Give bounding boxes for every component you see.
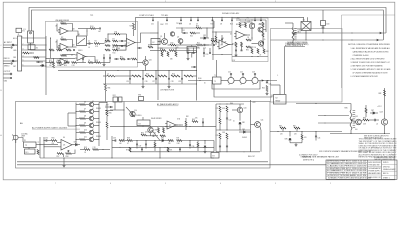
resistor R92 — [185, 121, 187, 127]
capacitor C43 — [141, 148, 143, 150]
svg-text:+24V: +24V — [252, 102, 255, 104]
resistor R2 — [61, 39, 67, 41]
left column parts — [262, 22, 264, 27]
wire mid links — [265, 20, 267, 32]
resistor R60 — [93, 149, 99, 151]
svg-text:470: 470 — [304, 137, 307, 139]
diode CR6 — [289, 138, 291, 140]
svg-text:R92: R92 — [186, 116, 189, 118]
svg-text:REF: REF — [13, 57, 16, 59]
svg-text:R65: R65 — [109, 113, 112, 115]
wire diagonal — [126, 107, 135, 117]
wire U6 in — [57, 142, 59, 144]
connector J1 — [18, 36, 22, 71]
svg-text:C52: C52 — [165, 24, 168, 26]
svg-text:3. REFER TO ASSY DWG FOR: 3. REFER TO ASSY DWG FOR COMPONENT LOC — [351, 61, 391, 64]
svg-text:J1: J1 — [18, 34, 20, 36]
ground G6 — [204, 150, 206, 151]
transistor Q7 — [89, 109, 93, 113]
transistor Q3 — [249, 23, 254, 28]
transistor Q14 — [130, 111, 135, 116]
svg-text:R35: R35 — [246, 49, 249, 51]
wire osc y28 — [176, 27, 196, 29]
wire top rail A2r — [216, 103, 244, 105]
resistor R91 — [163, 128, 165, 134]
resistor R62 — [80, 111, 86, 113]
wire osc top — [150, 32, 158, 34]
svg-text:CAUTION: SEE SEPARATE PARTS: CAUTION: SEE SEPARATE PARTS LIST — [302, 156, 340, 159]
wire R1 feedback — [57, 24, 60, 32]
svg-text:1K: 1K — [247, 37, 249, 39]
capacitor C35 — [45, 139, 47, 141]
diode CR7 — [373, 112, 375, 114]
svg-text:4.7K: 4.7K — [95, 46, 98, 48]
resistor RL3 — [158, 75, 167, 77]
op-amp U7 — [167, 121, 176, 129]
capacitor C44 — [179, 148, 181, 150]
resistor R52 — [132, 58, 137, 60]
wire amp net — [86, 29, 88, 37]
svg-text:R30: R30 — [236, 24, 239, 26]
resistor R61 — [80, 104, 86, 106]
svg-text:5: 5 — [165, 183, 166, 185]
svg-text:+15V: +15V — [236, 18, 240, 20]
svg-text:UP UNLESS OTHERWISE INDICAT: UP UNLESS OTHERWISE INDICATED BY NOTE — [353, 72, 389, 75]
svg-text:Q12: Q12 — [355, 116, 358, 118]
svg-text:C51: C51 — [151, 24, 154, 26]
wire A2 bottom rail — [40, 157, 214, 159]
svg-text:RET: RET — [13, 66, 16, 68]
ground G1 — [103, 63, 105, 64]
svg-text:R17: R17 — [96, 60, 99, 62]
capacitor C39 — [189, 144, 191, 146]
svg-text:220: 220 — [57, 65, 60, 67]
capacitor C41 — [219, 145, 221, 147]
wire row1b — [93, 62, 95, 64]
wire U2 inputs — [119, 40, 127, 42]
assembly box A1 — [46, 21, 138, 67]
resistor R67 — [119, 140, 125, 142]
svg-text:R98: R98 — [148, 45, 151, 47]
svg-text:C27: C27 — [152, 81, 155, 83]
svg-text:RELAY DRIVER: RELAY DRIVER — [151, 117, 161, 120]
wire K1 to y40 — [305, 33, 307, 40]
wire filter input — [188, 80, 213, 82]
resistor R71 — [177, 140, 183, 142]
wire ladder top — [58, 70, 197, 72]
svg-text:22K: 22K — [104, 42, 107, 44]
resistor R37 — [257, 49, 259, 54]
resistor R1 — [61, 23, 67, 25]
resistor R68 — [127, 140, 133, 142]
resistor R45 — [266, 86, 268, 92]
resistor R90 — [158, 128, 160, 134]
svg-text:.02: .02 — [376, 123, 378, 125]
capacitor C24 — [266, 81, 268, 83]
wire bottom net — [232, 56, 268, 58]
resistor R4 — [94, 43, 100, 45]
capacitor C42 — [226, 145, 228, 147]
wire U1B out — [73, 46, 77, 48]
wire Q10 leads — [94, 132, 99, 134]
svg-text:3.9K: 3.9K — [222, 108, 225, 110]
wire Q7 leads — [94, 111, 99, 113]
svg-text:C28: C28 — [171, 81, 174, 83]
svg-text:150: 150 — [254, 47, 257, 49]
svg-text:-15V: -15V — [232, 60, 235, 62]
diode CR2 — [162, 139, 164, 141]
svg-text:220: 220 — [52, 143, 55, 145]
svg-text:C45: C45 — [318, 137, 321, 139]
resistor R35 — [246, 46, 251, 48]
capacitor R28 — [260, 17, 262, 20]
resistor R9 — [105, 49, 110, 51]
wire R85 ends — [350, 104, 352, 111]
svg-text:470: 470 — [176, 47, 179, 49]
vertical rails A2 — [111, 136, 113, 158]
resistor RL1 — [132, 75, 141, 77]
svg-text:TP4: TP4 — [203, 39, 206, 41]
svg-text:47: 47 — [260, 54, 262, 56]
svg-text:C6: C6 — [189, 24, 191, 26]
rheostat R40 — [292, 28, 294, 41]
wire R40 bottom — [292, 41, 294, 45]
svg-text:0.1: 0.1 — [92, 101, 94, 103]
svg-text:R74: R74 — [170, 149, 173, 151]
resistor R12 — [49, 62, 54, 64]
capacitor C50 — [138, 47, 140, 49]
capacitor C34 — [193, 66, 195, 68]
wire stack out — [106, 103, 108, 111]
svg-text:R56: R56 — [52, 138, 55, 140]
resistor R96 — [105, 84, 107, 91]
transistor Q16 — [143, 60, 148, 65]
resistor R5 — [105, 40, 110, 42]
filter L2 — [240, 77, 246, 83]
wire J1 pin 4 — [22, 56, 46, 58]
svg-text:0.1: 0.1 — [92, 115, 94, 117]
svg-text:R101: R101 — [90, 26, 94, 28]
line filter FL2 — [25, 149, 36, 154]
svg-text:R22: R22 — [162, 49, 165, 51]
resistor R87 — [365, 108, 367, 113]
wire row y141 — [125, 140, 128, 142]
svg-text:C10: C10 — [203, 47, 206, 49]
wire loop y97 — [214, 84, 272, 97]
capacitor C28 — [168, 77, 170, 79]
wire J1 pin 5 — [22, 60, 46, 62]
resistor R51 — [120, 58, 125, 60]
resistor RL4 — [171, 75, 180, 77]
svg-text:U8: U8 — [118, 48, 120, 50]
resistor R69 — [154, 143, 156, 148]
svg-text:R11: R11 — [115, 31, 118, 33]
svg-text:T1: T1 — [214, 75, 216, 77]
svg-text:VR1: VR1 — [242, 122, 245, 124]
svg-text:R71: R71 — [177, 138, 180, 140]
capacitor C38 — [145, 143, 147, 145]
svg-text:Q10: Q10 — [244, 108, 247, 110]
capacitor C27 — [155, 77, 157, 79]
resistor R66 — [106, 122, 108, 128]
resistor R16 — [88, 62, 93, 64]
zone boundary vertical — [341, 15, 343, 88]
capacitor C29 — [181, 77, 183, 79]
svg-text:R94: R94 — [141, 132, 144, 134]
svg-text:Q10: Q10 — [84, 130, 87, 132]
svg-text:CR6: CR6 — [285, 139, 288, 141]
svg-text:FL1: FL1 — [26, 152, 29, 154]
resistor R29 — [133, 23, 135, 30]
wire v15 stub — [105, 106, 113, 108]
svg-text:R42: R42 — [146, 73, 149, 75]
rheostat R58 — [66, 153, 72, 155]
transistor Q6 — [89, 102, 93, 106]
svg-text:SIGNAL LEVEL ADJ: SIGNAL LEVEL ADJ — [222, 12, 239, 15]
switch S2 — [28, 45, 35, 50]
wire output rail y131 — [270, 131, 342, 133]
resistor R50 — [66, 49, 71, 51]
wire long rail y162 — [17, 161, 268, 163]
svg-text:CR5: CR5 — [242, 129, 245, 131]
svg-text:R97: R97 — [212, 39, 215, 41]
resistor R80 — [280, 127, 286, 129]
wire U3 out — [229, 44, 234, 46]
op-amp U3 — [219, 40, 229, 49]
svg-text:TP3: TP3 — [246, 17, 249, 19]
ground G8 — [142, 84, 144, 86]
svg-text:U6: U6 — [63, 137, 65, 139]
svg-text:L1: L1 — [228, 84, 230, 86]
svg-text:G PRODUCTION RELEASE 10-0: G PRODUCTION RELEASE 10-02 KM — [327, 174, 367, 177]
svg-text:U7A: U7A — [177, 118, 180, 121]
wire K1 down — [305, 31, 307, 34]
svg-text:C22: C22 — [240, 71, 243, 73]
svg-text:10: 10 — [233, 120, 235, 122]
svg-text:2N3055: 2N3055 — [96, 122, 101, 124]
wire q12 base — [354, 121, 356, 123]
switch S1 — [77, 36, 87, 46]
svg-text:R53: R53 — [196, 26, 199, 28]
resistor R59 — [84, 149, 90, 151]
svg-text:2: 2 — [330, 183, 331, 185]
wire 115V bus B — [32, 10, 384, 40]
ground G4 — [266, 92, 268, 93]
svg-text:680: 680 — [170, 58, 173, 60]
svg-text:10K: 10K — [211, 43, 214, 45]
svg-text:SCHEMATIC POWER SUPPLY AND: SCHEMATIC POWER SUPPLY AND REGULATOR NO … — [328, 177, 371, 180]
relay K2 — [274, 95, 287, 105]
op-amp U4 — [236, 31, 245, 39]
wire feedback y89 — [212, 81, 260, 90]
svg-text:5. THIS SCHEMATIC APPLIES T: 5. THIS SCHEMATIC APPLIES TO SER NO 101 … — [351, 68, 392, 71]
svg-text:R88: R88 — [379, 93, 382, 95]
wire Y1 wires — [191, 45, 193, 47]
svg-text:2. ALL RESISTORS ARE 1/4 W: 2. ALL RESISTORS ARE 1/4 W 5 PERCENT — [351, 57, 386, 60]
op-amp U5 — [77, 53, 86, 61]
resistor R53 — [196, 27, 202, 29]
wire q11 net — [250, 100, 252, 152]
wire J1 pin 1 — [22, 37, 46, 39]
capacitor C19 — [127, 58, 129, 60]
svg-text:Q7: Q7 — [84, 109, 86, 111]
resistor R3 — [61, 55, 67, 57]
capacitor C3 — [121, 45, 123, 47]
wire AC input upper — [3, 44, 17, 46]
capacitor C47 — [152, 135, 154, 137]
wire comp-voltage line — [136, 17, 304, 30]
wire 115V bus A — [29, 8, 386, 34]
capacitor C51 — [152, 17, 154, 20]
regulator box VR3 — [139, 97, 144, 101]
wire mid feed — [212, 31, 232, 33]
svg-text:3: 3 — [275, 183, 276, 185]
svg-text:1.8K: 1.8K — [222, 132, 225, 134]
capacitor C30 — [322, 10, 324, 21]
transformer T1 — [213, 77, 222, 84]
svg-text:CAPACITANCE VALUES IN UF U: CAPACITANCE VALUES IN UF UNLESS NOTED — [353, 50, 390, 53]
resistor R31 — [245, 23, 247, 28]
resistor R36 — [251, 49, 253, 54]
svg-text:0.1: 0.1 — [92, 129, 94, 131]
vertical rail x196 — [196, 60, 198, 101]
svg-text:U7: U7 — [169, 125, 171, 127]
resistor R27 — [53, 62, 55, 68]
capacitor C9 — [254, 17, 256, 20]
wire U1A out — [73, 31, 79, 36]
wire q10 wires — [239, 104, 241, 107]
transistor Q12 — [356, 119, 362, 125]
svg-text:Q14: Q14 — [134, 110, 137, 112]
capacitor C37 — [136, 143, 138, 145]
wire Q8 leads — [94, 118, 99, 120]
svg-text:R51: R51 — [120, 57, 123, 59]
svg-text:U6: U6 — [63, 145, 65, 147]
svg-text:R86: R86 — [363, 117, 366, 119]
capacitor C4 — [82, 58, 84, 60]
ground G5 — [63, 158, 65, 165]
svg-text:220: 220 — [168, 143, 171, 145]
resistor R74 — [167, 147, 169, 152]
wire K2 up — [279, 85, 281, 95]
svg-text:50: 50 — [204, 83, 206, 85]
svg-text:6.8K: 6.8K — [241, 24, 244, 26]
svg-text:R81: R81 — [293, 125, 296, 127]
svg-text:SHIELD: SHIELD — [4, 66, 10, 68]
svg-text:C32: C32 — [182, 30, 185, 32]
fuse F1 — [28, 31, 34, 43]
svg-text:0.1: 0.1 — [92, 108, 94, 110]
svg-text:LINE: LINE — [21, 135, 26, 137]
svg-text:0.1: 0.1 — [92, 122, 94, 124]
svg-text:+12 V: +12 V — [377, 106, 382, 108]
svg-text:R20: R20 — [171, 42, 174, 44]
svg-text:R85: R85 — [345, 107, 348, 109]
svg-text:GND: GND — [13, 50, 16, 52]
wire C10 right — [205, 44, 212, 46]
wire row2 — [40, 144, 58, 146]
transistor Q2 — [178, 39, 183, 44]
resistor R34 — [246, 39, 251, 41]
op-amp U1C — [60, 59, 68, 66]
svg-text:1K: 1K — [84, 152, 86, 154]
svg-text:Q8: Q8 — [84, 116, 86, 118]
assembly box A3 — [271, 29, 343, 103]
svg-text:OUTPUT: OUTPUT — [4, 71, 11, 73]
resistor R10 — [113, 49, 118, 51]
svg-text:6: 6 — [110, 183, 111, 185]
capacitor C33 — [209, 52, 211, 54]
resistor R93 — [192, 121, 198, 123]
svg-text:P1: P1 — [24, 140, 26, 142]
ic box U8 — [117, 46, 126, 51]
capacitor C10 — [203, 44, 205, 46]
svg-text:R38: R38 — [266, 51, 269, 53]
svg-text:OSC: OSC — [160, 24, 164, 26]
vertical rail x213 — [212, 20, 214, 60]
svg-text:CR9: CR9 — [203, 35, 206, 37]
wire U4 out — [245, 34, 250, 36]
resistor R101 — [90, 28, 96, 30]
capacitor C11 — [187, 52, 189, 54]
wire q13 up — [384, 88, 386, 119]
svg-text:2N3055: 2N3055 — [96, 108, 101, 110]
resistor R48 — [49, 49, 54, 51]
assembly box A4 — [232, 18, 268, 62]
svg-text:R10: R10 — [113, 52, 116, 54]
capacitor C26 — [142, 77, 144, 79]
svg-text:E1: E1 — [23, 31, 25, 33]
svg-text:S3: S3 — [154, 132, 156, 134]
capacitor C48 — [202, 121, 204, 123]
svg-text:10K: 10K — [72, 45, 75, 47]
svg-text:Q15: Q15 — [145, 132, 148, 134]
svg-text:REG OUT: REG OUT — [248, 156, 255, 158]
svg-text:C26: C26 — [145, 81, 148, 83]
resistor R55 — [37, 150, 39, 155]
svg-text:R100: R100 — [198, 78, 202, 80]
resistor R32 — [235, 42, 237, 47]
svg-text:C35: C35 — [45, 138, 48, 140]
title divider 2 — [381, 160, 383, 179]
svg-text:R7: R7 — [113, 39, 115, 41]
svg-text:R4: R4 — [95, 41, 97, 43]
ground G9 — [168, 84, 170, 86]
wire feed y115 — [318, 115, 349, 117]
capacitor C40 — [226, 117, 228, 119]
svg-text:S2: S2 — [36, 48, 38, 50]
wire U2 out — [137, 33, 150, 43]
capacitor C1 — [88, 42, 90, 44]
capacitor C45 — [315, 135, 317, 137]
vertical rail x46 — [45, 36, 47, 95]
input box E2 — [151, 39, 160, 45]
svg-text:.047: .047 — [98, 31, 101, 33]
svg-text:Q11: Q11 — [84, 137, 87, 139]
svg-text:K1: K1 — [303, 20, 305, 22]
svg-text:0.1: 0.1 — [92, 136, 94, 138]
resistor R81 — [294, 127, 300, 129]
resistor R38 — [263, 49, 265, 54]
svg-text:1N4002: 1N4002 — [242, 137, 247, 139]
capacitor C46 — [374, 119, 376, 121]
svg-text:R80: R80 — [279, 125, 282, 127]
resistor R70 — [168, 140, 174, 142]
svg-text:TP1: TP1 — [90, 15, 93, 17]
svg-text:C8: C8 — [220, 24, 222, 26]
svg-text:100: 100 — [49, 65, 52, 67]
zener VR1 — [239, 122, 241, 124]
